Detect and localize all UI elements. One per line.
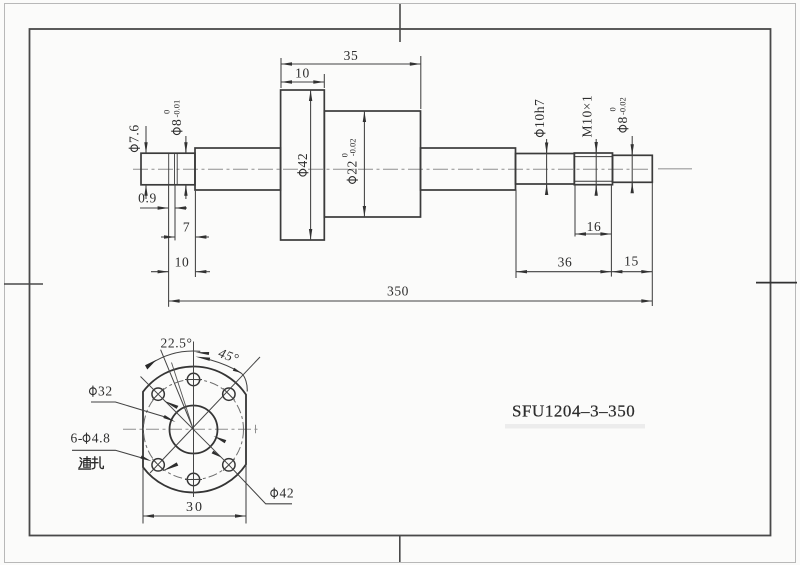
vertical radial line [193, 342, 195, 498]
left stub phi7.6 [141, 153, 195, 185]
svg-text:M10×1: M10×1 [580, 95, 595, 138]
bolt hole lower-left [152, 459, 164, 471]
svg-text:0: 0 [608, 107, 618, 111]
leader M10x1 bottom arrow [595, 185, 597, 195]
svg-text:15: 15 [624, 254, 639, 269]
svg-text:7: 7 [183, 220, 190, 235]
leader M10x1 line [595, 139, 597, 195]
phi symbol of 8-0.02 [617, 125, 628, 132]
label tongkong (through hole) char tong [79, 457, 91, 469]
dimension 35 line [281, 63, 421, 65]
leader phi8-0.01 top arrow [185, 142, 187, 153]
dimension 36 line [516, 271, 611, 273]
leader phi10h7 top arrow [546, 142, 548, 154]
shaft centerline [133, 168, 653, 170]
arc arrow 22.5 left [145, 360, 157, 370]
ext line left flat down [142, 467, 144, 523]
thread minor dia top line [574, 156, 612, 158]
circlip groove right edge [174, 153, 176, 185]
leader phi8-0.02 bottom arrow [631, 182, 633, 193]
svg-text:42: 42 [280, 486, 295, 501]
dimension arc 45 [210, 360, 247, 392]
phi symbol of 22 [347, 177, 358, 184]
leader phi10h7 line [546, 139, 548, 195]
leader phi7.6 line [145, 126, 147, 153]
svg-text:30: 30 [186, 500, 204, 515]
phi symbol of 7.6 [129, 145, 140, 152]
svg-text:36: 36 [558, 255, 573, 270]
tick upper-right hole [223, 389, 234, 400]
leader phi10h7 bottom arrow [546, 184, 548, 195]
bolt hole upper-left [152, 388, 164, 400]
svg-text:SFU1204–3–350: SFU1204–3–350 [512, 402, 635, 421]
ext line flange left up [280, 58, 282, 88]
circlip groove left edge [168, 153, 170, 185]
svg-text:8: 8 [169, 119, 184, 126]
svg-text:32: 32 [98, 384, 113, 399]
dimension phi22 vertical line [363, 111, 365, 217]
thread section M10x1 [574, 153, 612, 185]
flange outline with flats [143, 366, 246, 492]
bolt hole top [187, 373, 199, 385]
svg-text:0.9: 0.9 [138, 191, 157, 206]
flange phi42 [281, 90, 325, 240]
faint scan smudge under part number [505, 424, 645, 429]
leader 6-phi4.8 arrow [140, 456, 151, 462]
ext line groove right down [174, 185, 176, 241]
arc thick mark right of vertical [195, 352, 209, 355]
leader phi7.6 top arrow [145, 142, 147, 153]
comet arrow LR hole [212, 451, 222, 458]
dimension phi42 vertical line [310, 90, 312, 240]
svg-text:10: 10 [295, 66, 310, 81]
svg-text:16: 16 [587, 219, 602, 234]
radial line 135deg through UL hole to LR hole [141, 377, 229, 465]
ext line right flat down [245, 464, 247, 523]
svg-text:-0.02: -0.02 [348, 138, 358, 156]
leader phi32: underline and slant [91, 402, 166, 417]
leader M10x1 top arrow [595, 142, 597, 153]
dimension 0.9 right arrow [175, 207, 187, 209]
short second line near 22.5 radial [172, 363, 194, 429]
phi symbol of 42 [297, 169, 308, 176]
ext line journal left down [515, 190, 517, 279]
bottom center registration tick [399, 536, 401, 563]
phi symbol of 32 [90, 386, 97, 397]
ext line right end down [651, 182, 653, 306]
centerline right extension dash [658, 168, 692, 170]
top center registration tick [399, 4, 401, 42]
ext line flange right up [323, 74, 325, 88]
svg-text:-0.01: -0.01 [172, 100, 182, 118]
screw shaft right section [421, 148, 516, 190]
ext line screw left edge down [194, 191, 196, 277]
svg-text:4.8: 4.8 [92, 431, 111, 446]
leader phi8-0.02 top arrow [631, 144, 633, 155]
phi symbol of 4.8 [83, 433, 90, 444]
phi symbol of 8-0.01 [171, 128, 182, 135]
radial line 45deg through UR and LL holes [150, 357, 260, 473]
flange centerline end tick [255, 425, 257, 433]
svg-text:22: 22 [345, 160, 360, 175]
phi symbol of 10h7 [534, 130, 545, 137]
tick top hole [185, 379, 202, 381]
dimension 0.9 left arrow [140, 207, 169, 209]
svg-text:10h7: 10h7 [532, 99, 547, 128]
comet arrow UL radial [164, 401, 179, 409]
dimension 16 line [575, 233, 611, 235]
leader phi8-0.02 line [631, 136, 633, 193]
svg-text:-0.02: -0.02 [618, 97, 628, 115]
comet arrow center hole right [214, 436, 227, 443]
svg-text:35: 35 [344, 48, 359, 63]
dimension arc 22.5 [151, 351, 201, 364]
tick lower-right hole [223, 459, 234, 470]
journal phi10h7 [516, 154, 575, 185]
ext line nut right up [420, 56, 422, 109]
dimension 7 left arrow [161, 236, 175, 238]
comet arrow LL radial [162, 462, 178, 471]
dimension 10 left arrow [151, 271, 169, 273]
leader phi8-0.01 line [185, 136, 187, 153]
svg-text:8: 8 [615, 116, 630, 123]
ext line thread left down [574, 185, 576, 237]
thread minor dia bottom line [574, 180, 612, 182]
bolt hole bottom [187, 473, 199, 485]
leader phi42: slant through LR hole and underline [229, 465, 292, 504]
bolt circle dash-dot [144, 380, 244, 480]
right center registration tick [756, 282, 797, 284]
svg-text:7.6: 7.6 [127, 124, 142, 143]
nut body phi22 [324, 111, 420, 217]
dimension 7 right arrow [195, 236, 209, 238]
left center registration tick [4, 283, 43, 285]
flange horizontal centerline [123, 428, 259, 430]
tick bottom hole [185, 479, 202, 481]
svg-text:350: 350 [387, 284, 409, 299]
arc thick mark 45 start [196, 357, 211, 361]
dimension 10 right arrow [195, 271, 210, 273]
bolt hole lower-right [223, 459, 235, 471]
right end stub phi8 [613, 155, 653, 182]
label tongkong char kong [92, 457, 104, 469]
ext line thread right down [610, 185, 612, 277]
svg-text:22.5°: 22.5° [161, 336, 193, 351]
tick upper-left hole [153, 389, 164, 400]
dimension 350 line [169, 300, 653, 302]
svg-text:6-: 6- [71, 431, 83, 446]
screw shaft left section [195, 148, 281, 190]
dimension 30 line [143, 515, 246, 517]
svg-text:42: 42 [295, 153, 310, 168]
dimension 10 top line [281, 81, 324, 83]
phi symbol of flange 42 [271, 488, 278, 499]
center bore circle [170, 406, 218, 454]
svg-text:0: 0 [162, 110, 172, 114]
svg-text:10: 10 [175, 255, 190, 270]
ext line groove left down [168, 185, 170, 307]
leader phi32 arrow [163, 415, 175, 422]
leader phi7.6 bottom arrow [145, 185, 147, 196]
leader 6-phi4.8: underline and slant [72, 450, 143, 458]
radial line 22.5deg [161, 350, 194, 430]
dimension 15 line [611, 271, 652, 273]
tick lower-left hole [153, 459, 164, 470]
arc arrow 45 end [233, 368, 241, 373]
leader phi8-0.01 bottom arrow [185, 185, 187, 196]
bolt hole upper-right [223, 388, 235, 400]
step line phi7.6 to phi8 [176, 153, 178, 185]
